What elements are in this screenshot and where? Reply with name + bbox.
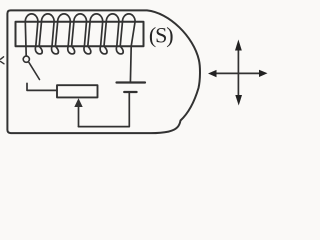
svg-text:(S): (S) [149, 23, 173, 48]
rheostat body R [57, 85, 98, 97]
cross arrow down head [235, 95, 242, 106]
cross arrow left head [208, 70, 217, 77]
rheostat slider arrow stem [78, 104, 80, 127]
stray mark at left margin [1, 57, 5, 64]
cross arrow horizontal line [215, 72, 262, 74]
cross arrow vertical line [237, 48, 239, 98]
cross arrow right head [259, 70, 268, 77]
cross arrow up head [235, 40, 242, 51]
wire: bottom return [79, 92, 130, 126]
switch pivot circle [23, 56, 29, 62]
switch blade [29, 63, 40, 80]
wire: switch lower terminal to rheostat [27, 83, 57, 90]
coil winding L1 (7 turns, includes leads to switch and battery) [25, 14, 135, 83]
enclosure (magnetron/tube outline, D-shaped) [7, 10, 200, 133]
battery positive plate (long) [117, 81, 146, 83]
rheostat slider arrow head [74, 98, 82, 107]
battery negative plate (short) [124, 91, 136, 93]
coil core (solenoid former) [16, 22, 144, 46]
